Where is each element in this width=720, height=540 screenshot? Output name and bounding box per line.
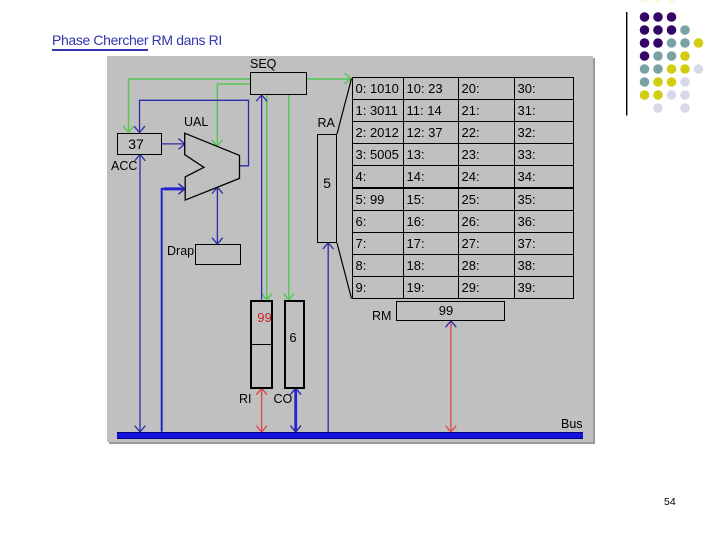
row 8: [653, 103, 663, 113]
value 5 in RA: [317, 176, 337, 191]
label RI: [239, 392, 252, 407]
memory table: [352, 77, 574, 299]
label Drap: [167, 244, 194, 259]
label ACC: [111, 159, 137, 174]
value 99 in RI (red): [253, 310, 276, 325]
black funnel diagonal memory to RA top: [337, 79, 352, 135]
wire blue thick Bus to UAL bottom input: [161, 189, 184, 432]
row 5: [640, 64, 650, 74]
wire blue thick CO to Bus: [294, 389, 297, 432]
green arrowhead into ACC top: [123, 126, 134, 132]
row 4: [640, 51, 650, 61]
vertical rule: [626, 12, 628, 116]
navy arrowhead into ACC top: [134, 126, 145, 132]
title underline: [52, 49, 148, 51]
wire green SEQ to RI: [266, 95, 268, 299]
wire navy UAL output to ACC feedback: [140, 100, 249, 166]
row 7: [640, 90, 650, 100]
navy arrowhead into UAL left top input: [178, 139, 184, 150]
green arrowhead into CO top: [284, 293, 295, 299]
navy arrowhead into Bus at CO line: [290, 426, 301, 432]
wire navy RI to SEQ: [261, 95, 263, 299]
bus bar: [117, 432, 583, 439]
label SEQ: [250, 57, 276, 72]
wire green SEQ to UAL: [217, 84, 250, 146]
wire green SEQ to CO: [288, 95, 290, 299]
row 6: [640, 77, 650, 87]
label Bus: [561, 417, 583, 432]
faint top dots: [640, 0, 650, 3]
row 1: [640, 12, 650, 22]
wire navy ACC to Bus: [139, 155, 141, 432]
navy arrowhead into RM bottom: [446, 321, 457, 327]
wire red RI to Bus: [261, 389, 263, 432]
value 6 in CO: [283, 330, 304, 345]
wire navy ACC to UAL: [162, 143, 185, 145]
red arrowhead into RI bottom: [256, 389, 267, 395]
register RI: [250, 300, 273, 389]
label CO: [274, 392, 293, 407]
gray diagram panel: [107, 56, 593, 442]
register ACC: [117, 133, 162, 155]
register RA: [317, 134, 337, 243]
navy arrowhead into Bus at ACC line: [135, 426, 146, 432]
red arrowhead into Bus at RI line: [256, 426, 267, 432]
navy arrowhead into UAL bottom edge: [212, 187, 223, 193]
register RM: [396, 301, 505, 321]
navy arrowhead into RA bottom: [323, 243, 334, 249]
register Drap: [195, 244, 241, 265]
label RA: [318, 116, 335, 131]
RI divider: [250, 344, 273, 345]
row 2: [640, 25, 650, 35]
wire red RM to Bus: [450, 321, 452, 432]
wire green SEQ to ACC and SEQ to memory: [129, 79, 351, 132]
blue arrowhead into UAL left bottom input: [178, 184, 184, 195]
title: Phase Chercher RM dans RI: [52, 32, 222, 48]
label RM: [372, 309, 391, 324]
page number 54: [664, 496, 676, 508]
navy arrowhead into ACC bottom: [135, 155, 146, 161]
green arrowhead into UAL top: [212, 140, 223, 146]
black funnel diagonal RA bottom to memory: [337, 243, 352, 299]
red arrowhead into Bus at RM line: [446, 426, 457, 432]
green arrowhead into memory table: [344, 73, 350, 84]
wire navy UAL to Drap: [216, 188, 218, 244]
row 3: [640, 38, 650, 48]
label UAL: [184, 115, 208, 130]
register CO: [284, 300, 305, 389]
wire navy Bus to RA: [327, 243, 329, 432]
register SEQ: [250, 72, 307, 95]
navy arrowhead into Drap top: [212, 238, 223, 244]
blue arrowhead into CO bottom: [290, 388, 301, 394]
navy arrowhead into SEQ bottom: [256, 95, 267, 101]
green arrowhead into RI top: [262, 293, 273, 299]
op-amp UAL polygon: [185, 133, 240, 200]
